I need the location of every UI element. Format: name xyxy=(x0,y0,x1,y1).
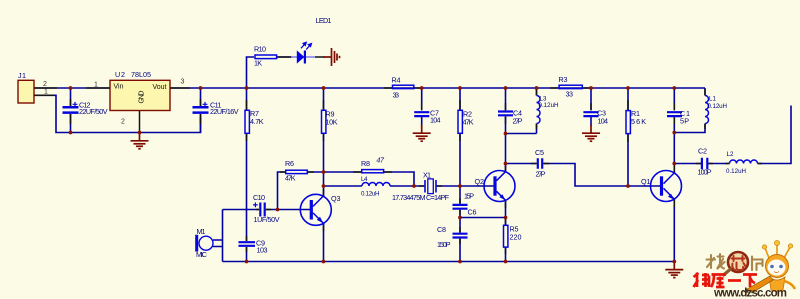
svg-text:22UF/50V: 22UF/50V xyxy=(79,107,108,116)
svg-text:47K: 47K xyxy=(285,174,296,183)
svg-text:0.12uH: 0.12uH xyxy=(539,102,559,109)
svg-text:2: 2 xyxy=(121,119,125,126)
svg-text:L1: L1 xyxy=(709,96,717,103)
svg-text:4.7K: 4.7K xyxy=(250,117,264,126)
svg-text:10K: 10K xyxy=(326,118,338,127)
svg-text:C6: C6 xyxy=(468,208,477,217)
svg-text:17.734475M C=14PF: 17.734475M C=14PF xyxy=(392,193,450,202)
svg-text:X1: X1 xyxy=(423,171,431,180)
svg-text:0.12uH: 0.12uH xyxy=(726,168,746,175)
svg-text:M1: M1 xyxy=(197,227,206,236)
svg-text:R10: R10 xyxy=(254,45,266,54)
svg-text:47K: 47K xyxy=(463,118,474,127)
svg-text:56K: 56K xyxy=(631,117,646,126)
svg-text:150P: 150P xyxy=(437,240,451,249)
svg-text:L4: L4 xyxy=(361,176,368,183)
svg-text:220: 220 xyxy=(510,233,522,242)
svg-text:C10: C10 xyxy=(253,193,265,202)
svg-text:5P: 5P xyxy=(680,116,689,125)
svg-text:22UF/16V: 22UF/16V xyxy=(210,107,239,116)
svg-text:104: 104 xyxy=(430,116,441,125)
svg-text:Vout: Vout xyxy=(153,84,167,91)
svg-text:R6: R6 xyxy=(285,159,294,168)
svg-text:1: 1 xyxy=(44,89,48,96)
svg-text:C2: C2 xyxy=(698,147,707,156)
svg-text:103: 103 xyxy=(257,246,268,255)
svg-text:78L05: 78L05 xyxy=(131,70,151,79)
svg-text:L2: L2 xyxy=(727,151,735,158)
svg-text:100P: 100P xyxy=(698,168,712,177)
svg-text:1UF/50V: 1UF/50V xyxy=(254,215,280,224)
svg-text:Vin: Vin xyxy=(114,84,124,91)
svg-text:27P: 27P xyxy=(513,117,523,126)
svg-text:C8: C8 xyxy=(437,225,446,234)
svg-text:Q2: Q2 xyxy=(475,177,485,186)
svg-text:15P: 15P xyxy=(464,192,474,201)
svg-text:27P: 27P xyxy=(536,170,546,179)
svg-text:104: 104 xyxy=(598,117,609,126)
svg-text:0.12uH: 0.12uH xyxy=(708,103,728,110)
svg-text:MIC: MIC xyxy=(196,250,207,259)
svg-text:C5: C5 xyxy=(535,148,544,157)
svg-text:R8: R8 xyxy=(361,159,370,168)
svg-text:GND: GND xyxy=(139,91,146,104)
svg-text:3: 3 xyxy=(181,79,185,86)
svg-text:LED1: LED1 xyxy=(316,16,332,25)
svg-text:2: 2 xyxy=(43,81,47,88)
svg-text:1K: 1K xyxy=(254,59,262,68)
svg-text:U2: U2 xyxy=(115,70,125,79)
svg-text:www.dzsc.com: www.dzsc.com xyxy=(713,288,787,299)
svg-text:Q3: Q3 xyxy=(331,194,341,203)
svg-text:R4: R4 xyxy=(392,76,401,85)
svg-text:33: 33 xyxy=(393,91,400,100)
svg-text:R3: R3 xyxy=(559,75,568,84)
svg-text:Q1: Q1 xyxy=(641,177,651,186)
svg-text:1: 1 xyxy=(94,82,98,89)
svg-text:J1: J1 xyxy=(18,71,26,80)
svg-text:33: 33 xyxy=(566,90,574,99)
svg-text:0.12uH: 0.12uH xyxy=(361,191,380,198)
